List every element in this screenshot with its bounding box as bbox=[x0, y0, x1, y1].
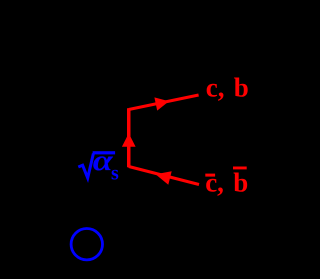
arrowhead right on upper diagonal bbox=[154, 97, 169, 110]
svg-text:c,: c, bbox=[206, 73, 225, 103]
svg-text:b: b bbox=[234, 73, 249, 103]
overbar on c bbox=[205, 174, 215, 177]
svg-text:c,: c, bbox=[205, 168, 224, 198]
overbar on b bbox=[233, 167, 247, 170]
sqrt alpha_s coupling label: radical sign bbox=[78, 154, 93, 179]
svg-text:s: s bbox=[111, 163, 119, 185]
wire: quark line upper diagonal bbox=[129, 95, 199, 110]
blue circle (vertex blob) bbox=[71, 229, 102, 260]
arrowhead up on vertical line bbox=[122, 133, 136, 147]
arrowhead left on lower diagonal bbox=[156, 171, 172, 185]
wire: antiquark line lower diagonal bbox=[129, 167, 199, 185]
wire: quark line vertical segment bbox=[127, 108, 131, 167]
svg-text:b: b bbox=[233, 168, 248, 198]
sqrt vinculum bar bbox=[93, 151, 116, 154]
